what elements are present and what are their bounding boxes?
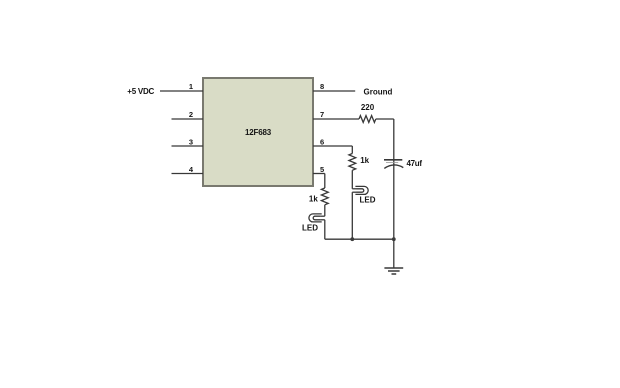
- ground: [384, 268, 403, 274]
- svg-text:1: 1: [189, 82, 193, 91]
- svg-text:7: 7: [320, 110, 324, 119]
- wire pin 6 branch horizontal: [313, 145, 352, 147]
- LED D1 lamp symbol: [352, 186, 368, 194]
- svg-text:4: 4: [189, 165, 194, 174]
- wire pin 3: [172, 145, 204, 147]
- wire resistor to node corner: [376, 118, 394, 120]
- wire bottom rail: [325, 238, 394, 240]
- svg-text:LED: LED: [360, 196, 376, 205]
- resistor R1 220: [359, 116, 376, 123]
- LED D2 lamp symbol: [309, 214, 325, 222]
- svg-text:220: 220: [361, 103, 375, 112]
- capacitor C1 47uf: [384, 160, 403, 169]
- IC U1 12F683 body: [203, 78, 313, 186]
- svg-text:Ground: Ground: [364, 88, 393, 97]
- wire resistor to LED D2: [324, 205, 326, 216]
- wire resistor to LED D1: [351, 170, 353, 189]
- svg-text:2: 2: [189, 110, 193, 119]
- junction node B: [392, 237, 396, 241]
- wire pin 5 branch horizontal: [313, 173, 325, 175]
- svg-text:3: 3: [189, 138, 193, 147]
- svg-text:LED: LED: [302, 224, 318, 233]
- wire LED D1 to bottom rail: [351, 192, 353, 239]
- wire pin 2: [172, 118, 204, 120]
- svg-text:1k: 1k: [309, 195, 318, 204]
- svg-text:5: 5: [320, 165, 324, 174]
- wire pin 7 to resistor: [313, 118, 359, 120]
- wire pin 5 branch vertical to resistor: [324, 174, 326, 189]
- svg-text:6: 6: [320, 138, 324, 147]
- svg-text:12F683: 12F683: [245, 128, 272, 137]
- wire pin 6 branch vertical to resistor: [351, 146, 353, 154]
- svg-text:8: 8: [320, 82, 324, 91]
- wire vertical cap branch: [393, 119, 395, 239]
- wire pin 8 to Ground label: [313, 90, 355, 92]
- resistor R2 1k: [349, 154, 356, 171]
- wire LED D2 to bottom rail: [324, 220, 326, 239]
- resistor R3 1k: [321, 188, 328, 205]
- wire pin 4: [172, 173, 204, 175]
- svg-text:47uf: 47uf: [407, 159, 423, 168]
- svg-text:+5 VDC: +5 VDC: [127, 87, 154, 96]
- wire pin 1: [160, 90, 203, 92]
- svg-text:1k: 1k: [360, 156, 369, 165]
- wire node B to ground: [393, 239, 395, 268]
- junction node A: [350, 237, 354, 241]
